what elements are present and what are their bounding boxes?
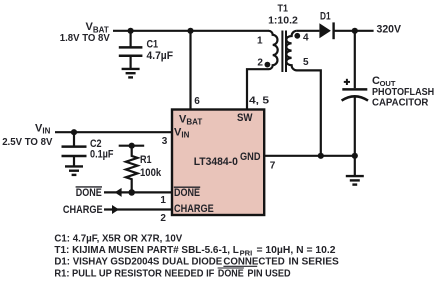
svg-text:R1: R1 xyxy=(140,154,152,166)
svg-text:3: 3 xyxy=(162,136,168,147)
svg-text:PIN USED: PIN USED xyxy=(247,268,290,279)
svg-text:5: 5 xyxy=(303,57,309,68)
svg-text:D1: D1 xyxy=(320,10,331,22)
transformer T1 core xyxy=(281,31,283,73)
svg-text:DONE: DONE xyxy=(218,268,244,279)
wire output to COUT xyxy=(354,31,356,88)
transformer T1 primary winding xyxy=(247,31,278,110)
note D1 xyxy=(54,257,339,268)
wire GND pin 7 rail xyxy=(264,155,355,157)
capacitor COUT xyxy=(342,75,435,108)
note T1 xyxy=(54,245,335,257)
svg-text:4.7µF: 4.7µF xyxy=(147,50,174,62)
wire secondary to D1 xyxy=(297,30,320,32)
svg-text:100k: 100k xyxy=(140,167,162,179)
transformer phase dot pin 2 xyxy=(265,62,271,68)
ground (C2) xyxy=(65,166,83,175)
svg-text:DONE: DONE xyxy=(174,187,200,199)
IC pin VBAT text xyxy=(179,113,202,126)
capacitor C2 xyxy=(62,132,114,166)
svg-text:4, 5: 4, 5 xyxy=(249,95,270,106)
svg-text:IN: IN xyxy=(42,127,50,136)
wire VIN to pin 3 xyxy=(55,131,172,133)
svg-text:320V: 320V xyxy=(377,24,402,36)
svg-text:4: 4 xyxy=(303,33,309,44)
wire VBAT rail xyxy=(113,30,269,32)
node VIN label xyxy=(2,122,53,148)
arrow CHARGE (points right) xyxy=(112,205,119,214)
svg-text:1:10.2: 1:10.2 xyxy=(268,15,298,27)
svg-text:R1: PULL UP RESISTOR NEEDED IF: R1: PULL UP RESISTOR NEEDED IF xyxy=(54,268,214,279)
svg-text:2.5V TO 8V: 2.5V TO 8V xyxy=(2,137,53,148)
wire D1 to output xyxy=(334,30,374,32)
node junction pin6 tap xyxy=(187,28,193,34)
svg-text:1: 1 xyxy=(257,36,263,47)
op-amp U1 LT3484-0 body xyxy=(172,110,264,216)
transformer phase dot pin 4 xyxy=(294,33,300,39)
svg-text:CHARGE: CHARGE xyxy=(174,203,214,215)
note R1 xyxy=(54,268,290,279)
svg-text:D1: VISHAY GSD2004S DUAL DIODE: D1: VISHAY GSD2004S DUAL DIODE xyxy=(54,257,222,268)
svg-text:SW: SW xyxy=(237,112,253,124)
svg-text:GND: GND xyxy=(240,151,261,163)
diode D1 xyxy=(319,10,333,39)
resistor R1 xyxy=(119,143,162,193)
svg-text:T1: T1 xyxy=(278,2,289,14)
node junction secondary return xyxy=(318,153,324,159)
wire VBAT to pin 6 xyxy=(189,31,191,110)
svg-text:DONE: DONE xyxy=(76,187,102,199)
svg-text:6: 6 xyxy=(194,96,200,107)
IC pin DONE text xyxy=(174,187,200,199)
node DONE label xyxy=(76,187,102,199)
ground (C1) xyxy=(122,69,140,78)
node junction R1 bottom xyxy=(128,189,135,196)
svg-text:C1: C1 xyxy=(147,39,159,51)
arrow DONE (points left) xyxy=(115,188,122,197)
svg-text:CAPACITOR: CAPACITOR xyxy=(372,96,429,108)
transformer T1 labels xyxy=(268,2,298,26)
wire COUT to ground rail xyxy=(354,96,356,156)
wire CHARGE to pin 2 xyxy=(104,208,172,210)
wire DONE to pin 1 xyxy=(104,191,172,193)
svg-text:BAT: BAT xyxy=(186,117,202,126)
svg-text:LT3484-0: LT3484-0 xyxy=(194,156,238,168)
svg-text:7: 7 xyxy=(270,160,276,171)
capacitor C1 xyxy=(119,31,173,69)
svg-text:2: 2 xyxy=(257,57,263,68)
svg-text:1.8V TO 8V: 1.8V TO 8V xyxy=(60,33,110,44)
svg-text:= 10µH, N = 10.2: = 10µH, N = 10.2 xyxy=(257,245,336,256)
svg-text:1: 1 xyxy=(160,195,166,206)
svg-text:T1: KIJIMA MUSEN PART# SBL-5.6: T1: KIJIMA MUSEN PART# SBL-5.6-1, L xyxy=(54,245,239,256)
svg-text:C1: 4.7µF, X5R OR X7R, 10V: C1: 4.7µF, X5R OR X7R, 10V xyxy=(54,234,182,245)
node junction C1 tap xyxy=(128,28,134,34)
svg-text:0.1µF: 0.1µF xyxy=(90,149,114,161)
svg-text:IN SERIES: IN SERIES xyxy=(289,257,340,268)
node junction ground xyxy=(352,153,358,159)
node junction output xyxy=(352,28,358,34)
node junction C2 tap xyxy=(71,129,77,135)
svg-text:IN: IN xyxy=(181,131,189,140)
ground (output) xyxy=(346,156,364,185)
svg-text:2: 2 xyxy=(160,213,166,224)
node VBAT label xyxy=(60,21,110,44)
IC pin VIN text xyxy=(174,126,190,139)
transformer T1 secondary winding xyxy=(286,31,321,156)
svg-text:CHARGE: CHARGE xyxy=(63,204,103,216)
